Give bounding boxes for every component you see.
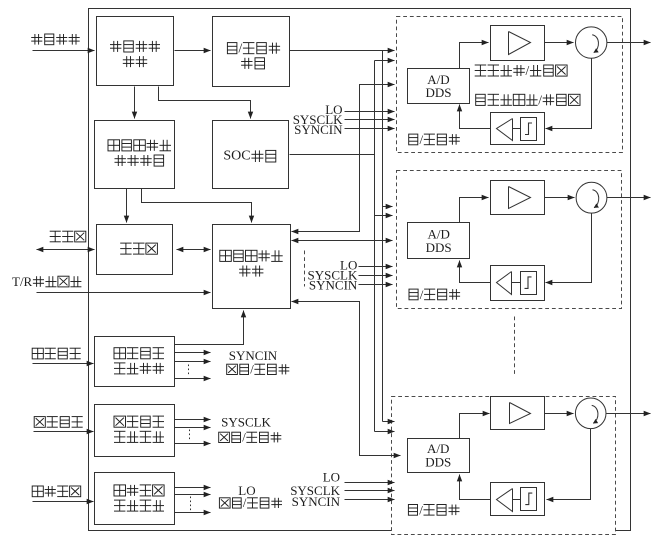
block SOC电源 (213, 121, 289, 189)
A/D DDS block channel2 (408, 223, 470, 259)
wire SOC bus vertical (374, 61, 376, 432)
dashed snippet right of control box (304, 251, 306, 287)
wire amplifier to circulator channel2 (545, 197, 575, 199)
wire circulator output channel2 (607, 197, 651, 199)
wire power bus elbow ch3 (383, 421, 395, 423)
wire SYSCLK to ch2 (359, 275, 393, 277)
svg-text:/: / (243, 496, 247, 510)
wire optical signal bidirectional (37, 249, 95, 251)
limiter block channel3 (491, 483, 545, 516)
wire power bus vertical (382, 51, 384, 422)
block 同步时钟功分电路 (95, 337, 175, 387)
svg-text:/: / (526, 63, 530, 78)
wire circulator to limiter channel2 (546, 214, 592, 283)
labels LO SYSCLK SYNCIN (channel2) (308, 258, 358, 293)
block 收/发通道电源 (T/R channel power) (213, 17, 290, 87)
label 限幅低噪放/下变频 (476, 92, 580, 107)
svg-text:SYNCIN: SYNCIN (292, 494, 341, 509)
circulator channel1 (576, 27, 607, 58)
label 光信号 (optical signal) (50, 231, 86, 242)
wire SYNCIN to ch3 (345, 499, 395, 501)
wire SYNCIN to ch1 (345, 128, 395, 130)
wire syncdist to control bottom (175, 311, 244, 345)
amplifier block channel3 (491, 397, 545, 430)
svg-text:/: / (420, 287, 424, 302)
wire limiter to A/D channel2 (460, 261, 491, 283)
wire SYNCIN to ch2 (359, 284, 393, 286)
svg-text:SYSCLK: SYSCLK (221, 415, 271, 430)
wire amplifier to circulator channel1 (545, 42, 574, 44)
wire optical module - control bidirectional (177, 249, 211, 251)
wires LO distribution outputs (175, 488, 211, 513)
label 收/发通道 channel3 (408, 502, 459, 517)
svg-text:/: / (242, 430, 246, 444)
wire LO signal input (33, 501, 94, 503)
arrow data bus into control (ch3 end) (292, 301, 299, 303)
arrow data bus into control (ch1 end) (292, 231, 299, 233)
svg-text:/: / (538, 92, 542, 107)
wire circulator output channel1 (607, 42, 651, 44)
wire DDS to amplifier channel1 (460, 43, 489, 69)
svg-text:/: / (250, 362, 254, 376)
dashed continuation between channel2 and channel3 (514, 317, 516, 377)
label 电源输入 (power input) (31, 34, 79, 45)
arrow data bus into channel1 (387, 84, 395, 86)
circulator channel3 (575, 398, 606, 429)
wire DDS to amplifier channel2 (460, 198, 489, 223)
block 系统时钟功分网络 (95, 405, 175, 457)
svg-text:SOC: SOC (223, 149, 250, 164)
block 本振信号功分网络 (95, 473, 175, 525)
label 同步时钟 (32, 348, 80, 359)
dashed box channel 2 (收/发通道 middle) (397, 171, 622, 309)
amplifier block channel2 (491, 181, 545, 215)
svg-text:/: / (420, 132, 424, 147)
wire power input (33, 50, 95, 52)
svg-text:SYNCIN: SYNCIN (294, 122, 343, 137)
svg-text:SYNCIN: SYNCIN (309, 278, 358, 293)
wire limiter to A/D channel3 (460, 475, 491, 500)
svg-text:/: / (239, 41, 243, 56)
wire SOC power output (290, 154, 375, 156)
svg-text:DDS: DDS (426, 85, 452, 100)
circulator channel2 (576, 182, 607, 213)
wire system clock input (34, 431, 94, 433)
block 数据及控制电路 (data & control circuit) (213, 225, 291, 309)
wire channel-power bus horizontal to ch1 (290, 50, 395, 52)
A/D DDS block channel3 (408, 439, 470, 473)
label 本振信号 (32, 486, 80, 497)
wire data bus ch2 bidirectional (292, 240, 393, 242)
wire power-input to SOC power (jog) (159, 87, 251, 119)
wire circulator to limiter channel3 (547, 429, 591, 500)
arrow data bus into channel3 A/D (393, 455, 401, 457)
label SYNCIN 去收/发通道 (227, 348, 290, 376)
labels LO SYSCLK SYNCIN (channel3) (290, 470, 340, 510)
wire circulator output channel3 (607, 413, 651, 415)
svg-text:T/R: T/R (12, 274, 33, 289)
block 电源输入电路 (power input circuit) (97, 17, 174, 86)
limiter block channel2 (491, 266, 545, 301)
label LO 去收/发通道 (219, 483, 282, 510)
wires sync clock distribution outputs (175, 353, 211, 379)
wire LO to ch1 (345, 111, 395, 113)
svg-text:DDS: DDS (426, 240, 452, 255)
wire limiter to A/D channel1 (460, 105, 491, 129)
wire LO to ch2 (359, 266, 393, 268)
wire SYSCLK to ch3 (345, 490, 395, 492)
svg-text:/: / (419, 502, 423, 517)
limiter block channel1 (491, 113, 545, 145)
outer enclosure box (89, 9, 631, 531)
wire data-power to control circuit (jog) (142, 189, 252, 223)
block 数据及控制电路电源 (95, 121, 175, 189)
dashed box channel 3 (收/发通道 bottom) (392, 397, 616, 535)
wires system clock distribution outputs (175, 420, 211, 444)
label 功率放大/上变频 (475, 63, 567, 78)
svg-text:SYNCIN: SYNCIN (229, 348, 278, 363)
amplifier block channel1 (491, 26, 545, 61)
svg-text:DDS: DDS (425, 454, 451, 469)
wire DDS to amplifier channel3 (460, 414, 490, 439)
svg-text:LO: LO (238, 483, 255, 498)
wire circulator to limiter channel1 (546, 59, 592, 129)
label 系统时钟 (34, 417, 82, 428)
wire SOC bus stub ch1 (375, 60, 395, 62)
wire SOC bus elbow ch3 (375, 431, 395, 433)
wire data-power down to optical module (126, 189, 128, 223)
wire power-input to channel-power (175, 50, 211, 52)
A/D DDS block channel1 (408, 69, 470, 104)
labels LO SYSCLK SYNCIN (channel1) (293, 102, 343, 137)
wire amplifier to circulator channel3 (545, 413, 574, 415)
label 收/发通道 channel2 (409, 287, 460, 302)
dashed box channel 1 (收/发通道 top) (397, 17, 623, 153)
label T/R控制脉冲 (12, 274, 81, 289)
wire SYSCLK to ch1 (345, 119, 395, 121)
label 收/发通道 channel1 (409, 132, 460, 147)
wire power bus stub ch2 (383, 206, 393, 208)
wire SOC bus stub ch2 (375, 215, 393, 217)
block 光模块 (optical module) (97, 225, 173, 275)
label SYSCLK 去收/发通道 (219, 415, 282, 445)
wire sync clock input (33, 363, 94, 365)
wire power-input down to data-power (134, 87, 136, 119)
wire data bus ch3 (control to channel3) (292, 302, 401, 456)
wire T/R control pulse (37, 292, 211, 294)
wire data bus ch1 (control to channel1) (292, 85, 395, 232)
wire LO to ch3 (345, 482, 395, 484)
